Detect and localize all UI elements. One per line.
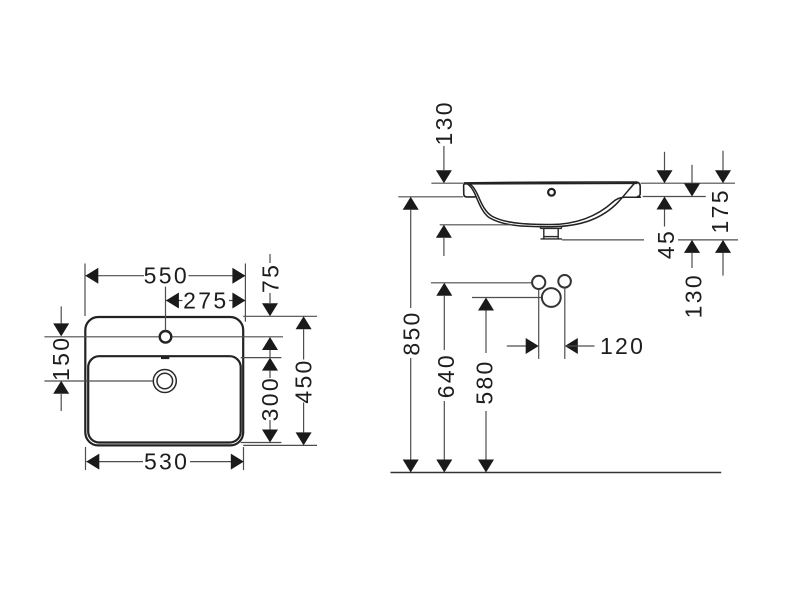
dim 150 lower arrow (up, tip at drain line) xyxy=(53,381,69,394)
inner-rect bottom edge extension line to the right xyxy=(241,442,282,444)
dim 300 line upper segment xyxy=(269,371,271,378)
dim 550 right arrow xyxy=(232,268,245,284)
rim top extension line to the left xyxy=(431,182,463,184)
dim 530 line left segment xyxy=(86,461,143,463)
svg-text:530: 530 xyxy=(144,449,189,475)
drain fitting flange right stub xyxy=(561,226,563,229)
floor line xyxy=(391,472,722,474)
dim 550 line left segment xyxy=(85,275,144,277)
dim 275 right arrow xyxy=(232,293,245,309)
dim 850 lower arrow (down, tip at floor) xyxy=(403,460,419,473)
dim 130 (top) lower arrow (up, tip at basin bottom line) xyxy=(436,225,452,238)
dim 580 lower arrow (down, tip at floor) xyxy=(478,460,494,473)
dim 275 line right segment xyxy=(229,300,245,302)
drain fitting inner bottom line xyxy=(544,236,558,238)
dim 580 upper arrow (up, tip at drain hole line) xyxy=(478,298,494,311)
dim 640 upper arrow (up, tip at mount hole line) xyxy=(436,283,452,296)
basin top-view outer rim (rounded rect) xyxy=(85,317,243,445)
dim 850 line lower segment xyxy=(410,358,412,460)
drain fitting body right wall xyxy=(557,228,559,239)
dim 150 extension tail above xyxy=(60,306,62,323)
svg-text:580: 580 xyxy=(472,359,498,404)
dim 530 right arrow xyxy=(231,454,244,470)
faucet center extension line (vertical) xyxy=(165,287,167,331)
overflow notch on inner bowl top edge xyxy=(161,357,169,359)
dim 130 (right) tail below arrow xyxy=(691,253,693,268)
svg-text:120: 120 xyxy=(600,333,645,359)
dim 75 extension tail above label xyxy=(269,254,271,263)
dim 130 (right) upper tail xyxy=(691,165,693,184)
faucet-hole centerline (horizontal) left segment xyxy=(44,336,159,338)
dim 175 upper tail xyxy=(722,151,724,171)
dim 530 left arrow xyxy=(86,454,99,470)
drain inner circle xyxy=(157,373,173,389)
dim 175 upper arrow (down, tip at rim top line) xyxy=(715,170,731,183)
dim 130 (top) lower tail xyxy=(443,238,445,256)
dim 130 (right) lower arrow (up, tip at lower reference line) xyxy=(684,240,700,253)
dim 45 tail below arrow xyxy=(664,210,666,227)
dim 130 (top) arrow (down, tip at rim top line) xyxy=(436,170,452,183)
dim 550 line right segment xyxy=(189,275,246,277)
svg-text:45: 45 xyxy=(653,229,679,259)
dim 580 line lower segment xyxy=(485,411,487,460)
dim 150 extension tail below xyxy=(60,394,62,411)
dim 75 upper arrow (down, tip at outer top edge line) xyxy=(262,303,278,316)
dim 550 right extension line xyxy=(244,264,246,322)
mount hole right (small circle) xyxy=(558,275,571,288)
basin front outline: right rim end cap xyxy=(636,182,640,197)
dim 850 upper arrow (up, tip at rim underside line) xyxy=(403,197,419,210)
basin bottom extension line (left) xyxy=(440,224,513,226)
dim 45 lower arrow (up, tip at rim underside line) xyxy=(657,197,673,210)
dim 530 right extension line xyxy=(243,447,245,470)
svg-text:550: 550 xyxy=(144,263,189,289)
dim 580 line upper segment xyxy=(485,311,487,354)
svg-text:300: 300 xyxy=(257,376,283,421)
lower reference line at siphon bottom level, left segment xyxy=(562,239,644,241)
drain outer circle xyxy=(153,370,176,393)
svg-text:640: 640 xyxy=(433,353,459,398)
mount hole left (small circle) xyxy=(532,276,545,289)
svg-text:850: 850 xyxy=(398,310,424,355)
svg-text:275: 275 xyxy=(183,287,228,313)
drain fitting flange left stub xyxy=(540,226,542,229)
basin bowl outer underside curve xyxy=(466,183,635,227)
dim 450 line upper segment xyxy=(303,329,305,359)
dim 530 left extension line xyxy=(85,447,87,470)
svg-text:150: 150 xyxy=(48,336,74,381)
lower reference line right segment xyxy=(678,239,738,241)
dim 120 left extension line (vertical) xyxy=(538,290,540,359)
basin front outline: rim top upper line xyxy=(464,181,636,184)
svg-text:130: 130 xyxy=(680,273,706,318)
drain centerline (horizontal) xyxy=(44,380,152,382)
dim 75 lower arrow (up, tip at faucet line) xyxy=(262,337,278,350)
dim 120 right extension line (vertical) xyxy=(564,288,566,359)
dim 850 line upper segment xyxy=(410,210,412,308)
connector between dim 75 lower arrow and dim 300 upper arrow xyxy=(269,350,271,358)
dim 275 line left segment xyxy=(166,300,183,302)
rim underside line right of basin xyxy=(643,196,706,198)
drain fitting bottom line xyxy=(541,238,563,240)
rim underside line left of basin xyxy=(398,196,463,198)
dim 130 (right) upper arrow (down, tip at rim underside line) xyxy=(684,184,700,197)
dim 75 line below label xyxy=(269,293,271,303)
outer-rect bottom edge extension line to the right xyxy=(243,444,317,446)
dim 275 left arrow xyxy=(166,293,179,309)
faucet hole (top view) xyxy=(160,331,172,343)
rim top extension line to the right xyxy=(641,182,735,184)
drain fitting body left wall xyxy=(543,228,545,239)
svg-text:450: 450 xyxy=(291,358,317,403)
basin front outline: left rim end cap xyxy=(464,183,476,197)
drain hole (large circle) xyxy=(542,288,561,307)
svg-text:175: 175 xyxy=(707,188,733,233)
dim 450 upper arrow (up, tip at outer top edge) xyxy=(296,316,312,329)
dim 530 line right segment xyxy=(190,461,244,463)
dim 640 line upper segment xyxy=(443,296,445,350)
dim 150 upper arrow (down, tip at faucet line) xyxy=(53,323,69,336)
dim 175 lower tail xyxy=(722,253,724,276)
wall mount reference line (580 level) xyxy=(472,297,542,299)
dim 550 left extension line xyxy=(84,264,86,317)
faucet hole (front view) xyxy=(548,189,555,196)
basin front outline: rim top lower line xyxy=(464,182,638,185)
svg-text:130: 130 xyxy=(431,100,457,145)
dim 450 line lower segment xyxy=(303,403,305,433)
dim 550 left arrow xyxy=(85,268,98,284)
dim 300 line lower segment xyxy=(269,420,271,430)
inner-rect top edge extension line to the right xyxy=(241,357,282,359)
dim 175 lower arrow (up, tip at lower reference line) xyxy=(715,240,731,253)
basin bowl inner surface curve xyxy=(469,183,641,224)
dim 450 lower arrow (down, tip at outer bottom edge) xyxy=(296,432,312,445)
dim 640 lower arrow (down, tip at floor) xyxy=(436,460,452,473)
dim 300 upper arrow (up, tip at inner top edge) xyxy=(262,358,278,371)
wall mount holes reference line (640 level) xyxy=(431,282,532,284)
basin top-view inner bowl edge (rounded rect) xyxy=(88,356,241,442)
outer-rect top edge extension line to the right xyxy=(243,315,317,317)
drain fitting flange top line xyxy=(540,227,562,229)
dim 130 (top) line below label xyxy=(443,146,445,170)
svg-text:75: 75 xyxy=(258,263,284,293)
dim 300 lower arrow (down, tip at inner bottom edge) xyxy=(262,430,278,443)
dim 45 upper tail xyxy=(664,152,666,170)
faucet-hole centerline right segment xyxy=(172,336,283,338)
dim 640 line lower segment xyxy=(443,401,445,460)
dim 120 right arrow (pointing left) xyxy=(565,338,578,354)
dim 120 line right segment xyxy=(565,345,595,347)
dim 45 upper arrow (down, tip at rim top line) xyxy=(657,170,673,183)
dim 120 left arrow (pointing right) xyxy=(526,338,539,354)
dim 120 line left segment xyxy=(507,345,526,347)
